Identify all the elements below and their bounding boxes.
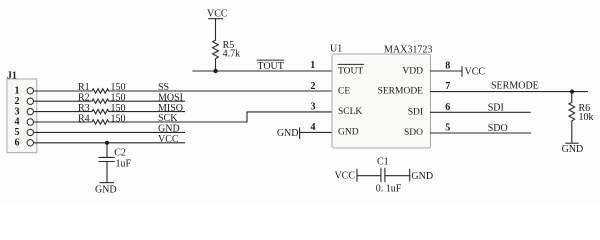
svg-text:R1: R1 [78,82,90,93]
svg-text:10k: 10k [579,112,594,123]
svg-text:0. 1uF: 0. 1uF [376,184,402,195]
svg-text:4: 4 [311,122,316,133]
svg-text:CE: CE [338,87,350,97]
svg-text:GND: GND [95,185,117,196]
svg-text:GND: GND [411,171,433,182]
svg-text:R4: R4 [78,113,90,124]
svg-text:MISO: MISO [158,103,183,114]
svg-text:SERMODE: SERMODE [491,81,539,92]
svg-text:MAX31723: MAX31723 [384,44,432,55]
svg-text:SCK: SCK [158,113,178,124]
svg-text:150: 150 [111,82,126,93]
svg-text:R3: R3 [78,103,90,114]
svg-text:3: 3 [15,106,20,117]
svg-text:R2: R2 [78,93,90,104]
svg-text:C2: C2 [114,148,126,159]
svg-text:GND: GND [562,144,584,155]
svg-text:150: 150 [111,103,126,114]
svg-text:4: 4 [15,117,20,128]
svg-text:SDI: SDI [488,103,504,114]
svg-text:SDO: SDO [488,123,508,134]
svg-text:VCC: VCC [158,134,179,145]
svg-text:SDO: SDO [404,128,423,138]
svg-text:SS: SS [158,82,169,93]
svg-text:U1: U1 [330,43,342,54]
svg-text:5: 5 [445,123,450,134]
svg-text:TOUT: TOUT [338,66,363,76]
svg-text:8: 8 [445,61,450,72]
svg-text:150: 150 [111,113,126,124]
svg-text:1: 1 [310,60,315,71]
svg-text:1: 1 [15,86,20,97]
svg-text:1uF: 1uF [116,159,132,170]
svg-text:2: 2 [311,81,316,92]
svg-text:3: 3 [311,102,316,113]
svg-text:TOUT: TOUT [257,61,283,72]
svg-text:SCLK: SCLK [338,107,362,117]
svg-text:J1: J1 [7,71,17,82]
svg-text:4.7k: 4.7k [223,49,241,60]
svg-text:150: 150 [111,93,126,104]
svg-text:GND: GND [158,124,180,135]
svg-text:C1: C1 [377,157,389,168]
svg-text:VCC: VCC [334,171,355,182]
svg-text:VDD: VDD [402,66,423,76]
svg-text:VCC: VCC [465,66,486,77]
svg-text:6: 6 [445,102,450,113]
svg-text:SDI: SDI [408,107,423,117]
svg-text:GND: GND [277,128,299,139]
svg-text:SERMODE: SERMODE [378,87,424,97]
svg-text:MOSI: MOSI [158,92,183,103]
svg-text:GND: GND [338,128,359,138]
svg-text:2: 2 [15,96,20,107]
svg-text:7: 7 [445,81,450,92]
svg-text:6: 6 [15,138,20,149]
svg-text:5: 5 [15,127,20,138]
svg-text:VCC: VCC [207,9,228,20]
